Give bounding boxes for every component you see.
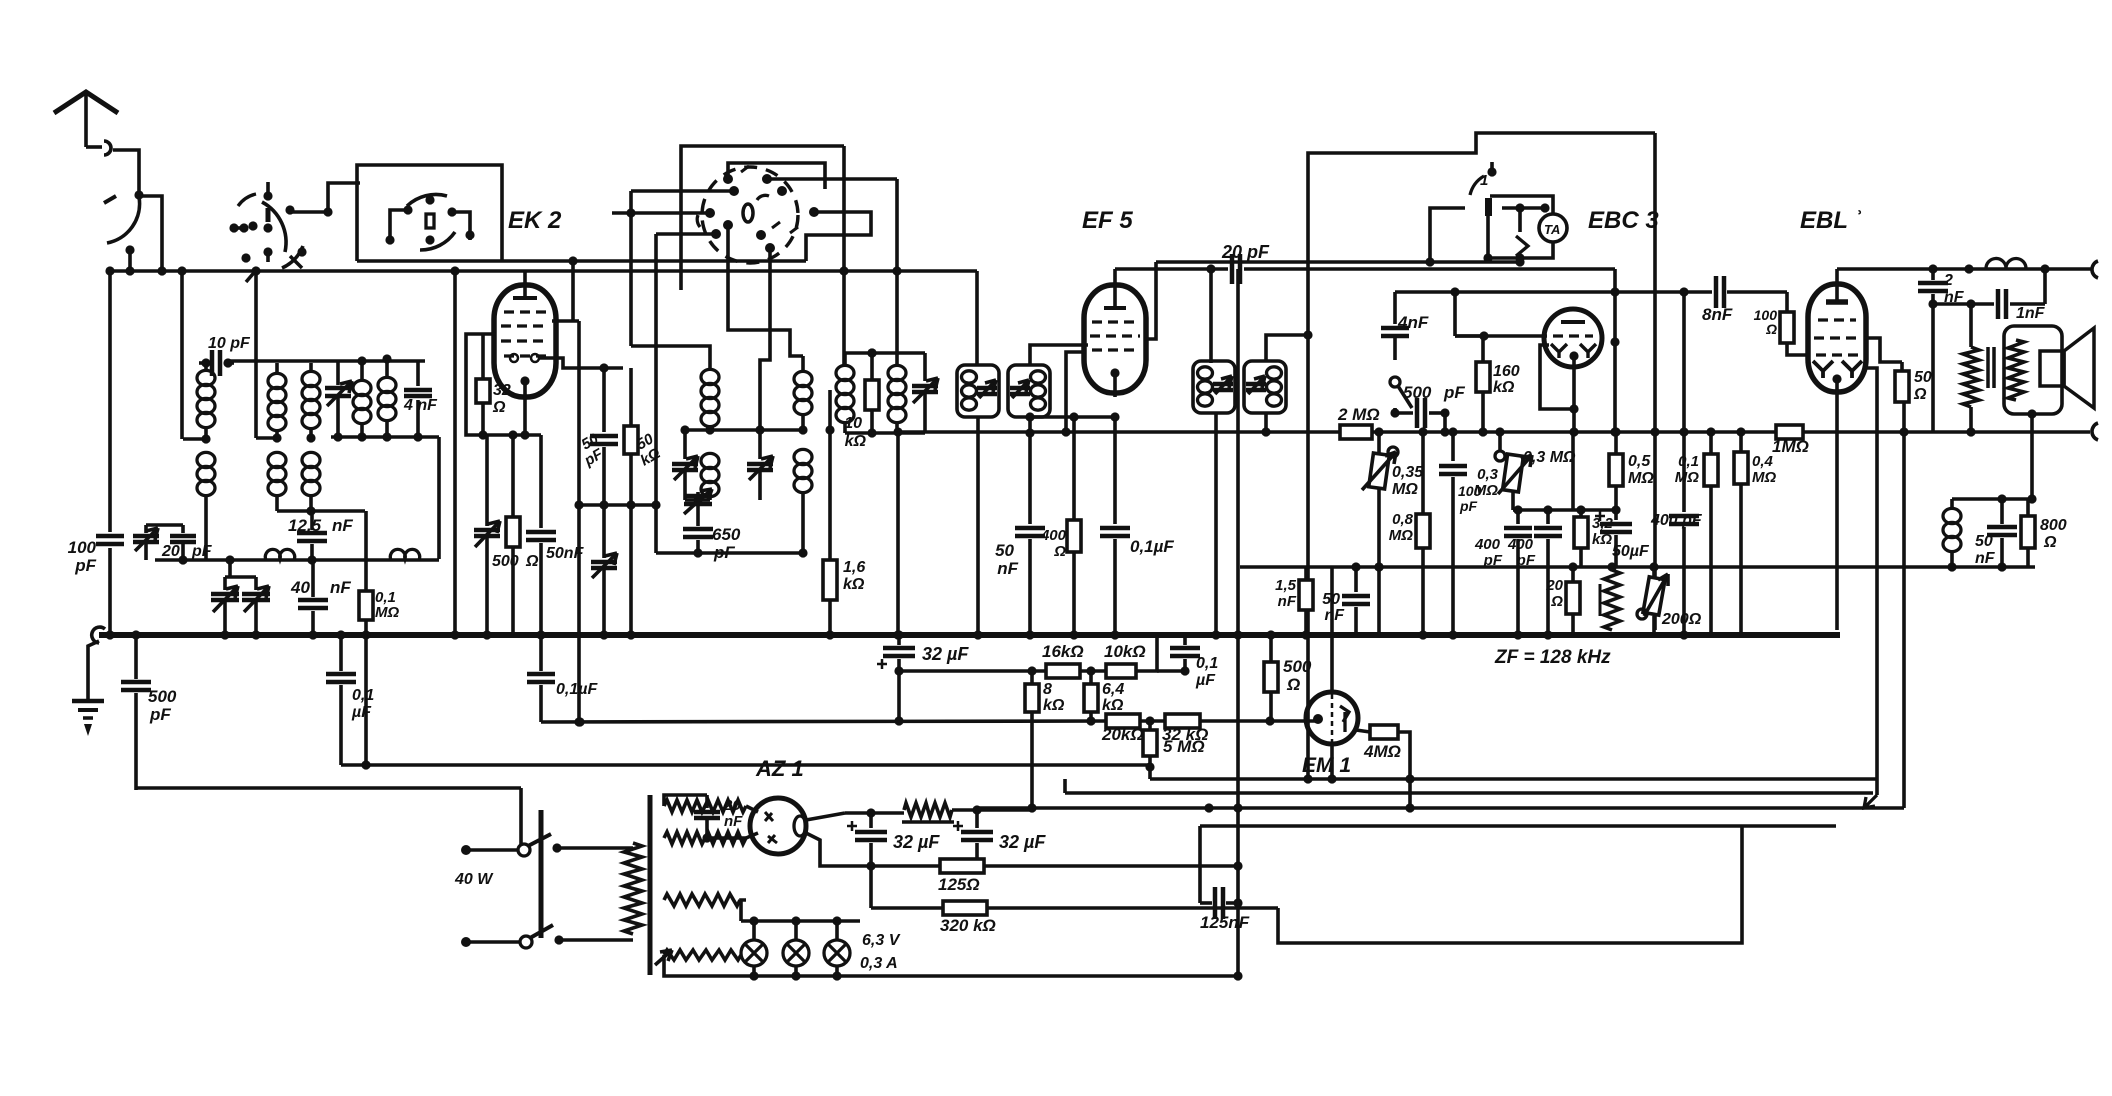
svg-text:20 pF: 20 pF — [1221, 242, 1270, 262]
svg-text:50: 50 — [1975, 533, 1993, 550]
svg-text:kΩ: kΩ — [843, 576, 865, 593]
svg-text:Ω: Ω — [1765, 321, 1777, 337]
svg-text:Ω: Ω — [1550, 593, 1563, 610]
svg-text:0,1: 0,1 — [1196, 655, 1218, 672]
resistor 8 kohm — [1030, 671, 1034, 684]
switch tone — [1390, 377, 1400, 387]
capacitor 10pF coupling — [199, 361, 206, 365]
speaker box — [2004, 326, 2062, 414]
wire block to plate rail — [1430, 260, 1520, 264]
capacitor 20pF — [181, 525, 185, 533]
wire AVC line right of 2M — [1372, 430, 1776, 434]
svg-text:50: 50 — [1322, 591, 1340, 608]
wire osc bottom rail — [685, 428, 803, 432]
transformer HV secondary a — [664, 800, 746, 812]
capacitor 50nF det — [1354, 567, 1358, 592]
svg-text:nF: nF — [997, 559, 1018, 578]
resistor 32 kohm — [1165, 714, 1200, 728]
resistor 160 kohm — [1481, 336, 1485, 362]
lamp dial 3 — [835, 921, 839, 941]
wire EBC3 diode plate loop — [1540, 345, 1574, 409]
svg-text:pF: pF — [1483, 552, 1503, 569]
node antenna switch — [134, 190, 143, 199]
svg-text:50nF: 50nF — [546, 545, 585, 562]
resistor hum zigzag — [1599, 584, 1602, 616]
resistor 4 Mohm — [1356, 730, 1370, 732]
capacitor padder variable — [693, 495, 702, 504]
wire EM1 grid row y=721 — [541, 721, 1106, 722]
svg-text:MΩ: MΩ — [1474, 482, 1498, 499]
svg-text:10 pF: 10 pF — [208, 335, 251, 352]
lamp dial 1 — [752, 921, 756, 941]
resistor 320 kohm — [943, 901, 987, 915]
tube EK2 socket outline box — [681, 146, 844, 290]
wire mains to transformer — [557, 846, 633, 850]
wire top signal rail y=271 — [110, 269, 977, 273]
tube EBC3 internals — [1561, 320, 1585, 324]
wire EK2 cathode — [523, 381, 527, 435]
svg-text:nF: nF — [724, 813, 743, 830]
capacitor 2nF — [1931, 269, 1935, 280]
capacitor 4nF — [416, 361, 420, 386]
wire antenna to top rail — [139, 196, 162, 271]
wire screen feed from box — [571, 261, 575, 321]
svg-text:32 µF: 32 µF — [893, 832, 940, 852]
svg-text:pF: pF — [1459, 498, 1478, 514]
wire EBL cathode to bus — [1835, 380, 1839, 630]
transformer HV secondary b — [664, 832, 746, 844]
resistor 0.5 Mohm — [1614, 432, 1618, 454]
capacitor 400pF c — [1682, 292, 1686, 512]
svg-text:0,5: 0,5 — [1628, 453, 1651, 470]
resistor 2 Mohm AVC — [1340, 425, 1372, 439]
svg-text:Ω: Ω — [2043, 534, 2057, 551]
resistor 400 ohm EF5 cathode — [1072, 417, 1076, 520]
transformer core — [648, 795, 653, 975]
svg-text:EBC 3: EBC 3 — [1588, 207, 1659, 234]
svg-text:1,6: 1,6 — [843, 559, 865, 576]
wire volume bottom rail y=510 — [1513, 508, 1616, 512]
svg-text:4 nF: 4 nF — [403, 397, 438, 414]
wire plate coupling line y=292 — [1395, 290, 1712, 294]
tube EM1 magic eye — [1330, 567, 1334, 693]
inductor filter choke — [904, 803, 952, 817]
wire socket pin10 to padder rail — [656, 232, 716, 236]
wire long vertical x=1238 — [1236, 269, 1240, 976]
svg-text:kΩ: kΩ — [1043, 697, 1065, 714]
svg-text:4MΩ: 4MΩ — [1363, 742, 1401, 761]
tube EK2 internal electrodes — [504, 310, 546, 313]
resistor 20 kohm — [1106, 714, 1140, 728]
capacitor 32uF electrolytic — [897, 635, 901, 645]
wire socket pin8 loop to osc coil J — [806, 212, 871, 261]
resistor 0.8 Mohm — [1421, 432, 1425, 514]
svg-text:nF: nF — [1278, 593, 1297, 610]
svg-text:Ω: Ω — [525, 553, 539, 570]
inductor RF coil L3a — [309, 363, 313, 371]
tube EBL top cap — [1826, 299, 1848, 305]
wire B+ rail y=808 after choke — [977, 806, 1904, 810]
wire field coil top rail — [1952, 497, 2032, 501]
potentiometer 0.3 Mohm volume — [1495, 451, 1505, 461]
capacitor 1.5nF — [1304, 567, 1308, 580]
svg-text:kΩ: kΩ — [845, 433, 867, 450]
wire coil bottom rail y=437 — [331, 435, 439, 439]
inductor field coil — [1950, 499, 1954, 508]
wire AZ1 heater return — [806, 833, 871, 866]
wire AZ1 output — [806, 813, 845, 820]
wire rail y=908 320k feed — [869, 866, 873, 908]
svg-text:1,5: 1,5 — [1275, 577, 1297, 594]
switch wafer 1 contacts — [262, 202, 286, 252]
capacitor 32uF filter 1 — [869, 813, 873, 828]
wire EF5 cathode rail — [1030, 415, 1115, 419]
resistor 500 ohm cathode — [511, 435, 515, 517]
resistor 0.1 Mohm — [364, 511, 368, 590]
svg-text:TA: TA — [1544, 222, 1560, 237]
potentiometer 200 ohm — [1643, 577, 1665, 615]
inductor antenna coil L1b — [197, 452, 215, 467]
svg-text:32: 32 — [493, 382, 511, 399]
node bus hook left end — [92, 627, 105, 643]
switch TA contacts — [1515, 203, 1524, 212]
svg-text:0,1: 0,1 — [352, 687, 374, 704]
wire padder junction y=511 — [277, 509, 365, 513]
svg-text:125Ω: 125Ω — [938, 875, 980, 894]
svg-text:EF 5: EF 5 — [1082, 207, 1133, 234]
wire band switch box — [357, 165, 502, 261]
wire EBC3 cathode rail link — [1571, 432, 1575, 510]
svg-text:650: 650 — [712, 525, 741, 544]
resistor 20 ohm — [1571, 567, 1575, 582]
capacitor trimmer — [336, 361, 340, 385]
capacitor 100pF det — [1451, 432, 1455, 461]
inductor RF choke output — [1986, 258, 2026, 269]
svg-text:Ω: Ω — [492, 399, 506, 416]
svg-text:160: 160 — [1493, 363, 1520, 380]
wire HV to AZ1 — [746, 806, 758, 812]
inductor oscillator coil Jb — [794, 449, 812, 464]
switch wafer 2 contacts — [407, 194, 447, 206]
svg-text:32 µF: 32 µF — [999, 832, 1046, 852]
inductor oscillator coil Gb — [701, 453, 719, 468]
wire EBC3 cathode down — [1572, 356, 1576, 432]
svg-text:Ω: Ω — [1053, 543, 1066, 560]
svg-text:kΩ: kΩ — [1102, 697, 1124, 714]
wire can3 feed — [1209, 269, 1213, 363]
svg-text:400 pF: 400 pF — [1650, 512, 1703, 529]
capacitor 100pF antenna series — [108, 271, 112, 532]
svg-text:50: 50 — [1914, 369, 1932, 386]
svg-text:20: 20 — [723, 797, 741, 814]
wire EF5 screen — [1066, 352, 1086, 432]
wire EM1 cathode — [1330, 744, 1334, 779]
resistor 16 kohm — [1046, 664, 1080, 678]
svg-text:nF: nF — [1324, 607, 1345, 624]
wire socket box right edge to IF1 — [842, 146, 846, 365]
svg-text:6,3 V: 6,3 V — [862, 932, 901, 949]
wire EK2 plate to rail — [552, 319, 579, 323]
capacitor 500pF — [1395, 411, 1413, 415]
svg-text:50: 50 — [995, 541, 1014, 560]
inductor osc coupling coil — [360, 361, 364, 380]
svg-text:6,4: 6,4 — [1102, 681, 1124, 698]
svg-text:µF: µF — [351, 704, 372, 721]
resistor 50 ohm — [1864, 338, 1902, 362]
svg-text:200Ω: 200Ω — [1661, 611, 1702, 628]
wire feed line y=788 — [136, 786, 521, 790]
svg-text:8: 8 — [1043, 681, 1052, 698]
svg-text:pF: pF — [1516, 552, 1536, 569]
svg-text:50µF: 50µF — [1612, 543, 1650, 560]
resistor 32 ohm — [466, 334, 496, 435]
transformer IF can 4 — [1244, 361, 1286, 413]
resistor 0.4 Mohm — [1739, 432, 1743, 452]
svg-text:Ω: Ω — [1913, 386, 1927, 403]
inductor IF1 primary coil — [843, 353, 847, 365]
svg-text:400: 400 — [1507, 536, 1534, 553]
tube AZ1 rectifier — [750, 798, 806, 854]
svg-text:8nF: 8nF — [1702, 305, 1733, 324]
svg-text:20: 20 — [161, 543, 180, 560]
capacitor tuning gang 1 — [223, 577, 227, 590]
svg-text:4nF: 4nF — [1397, 313, 1429, 332]
svg-text:500: 500 — [148, 687, 177, 706]
wire 50k bottom rail — [579, 503, 656, 507]
svg-text:0,4: 0,4 — [1752, 453, 1774, 470]
capacitor 0.1uF EF5 cathode — [1113, 417, 1117, 524]
svg-text:0,3 A: 0,3 A — [860, 955, 898, 972]
capacitor 50nF cathode — [539, 435, 543, 528]
capacitor 400pF b — [1546, 510, 1550, 524]
wire plate top line — [1837, 267, 2092, 271]
wire return rail y=779 — [1148, 767, 1152, 779]
transformer output core — [1986, 347, 1990, 388]
wire choke out to B+ rail — [1032, 808, 1036, 810]
resistor 0.1 Mohm right — [1709, 432, 1713, 454]
wire EBL side down — [1864, 368, 1877, 795]
lamp dial 2 — [794, 921, 798, 941]
wire 20pF to EBC3 plate — [1613, 269, 1617, 432]
wire AVC line y=432 — [898, 430, 1340, 434]
pickup TA — [1539, 214, 1567, 242]
svg-text:EBL ʾ: EBL ʾ — [1800, 207, 1862, 234]
node cathode rail — [478, 430, 487, 439]
svg-text:20: 20 — [1545, 577, 1563, 594]
resistor 500 ohm EM1 — [1269, 635, 1273, 662]
svg-text:0,1µF: 0,1µF — [556, 681, 598, 698]
svg-text:2: 2 — [1943, 272, 1953, 289]
svg-text:MΩ: MΩ — [1392, 481, 1418, 498]
inductor oscillator coil Ga — [708, 356, 712, 369]
inductor RF coil L2a — [275, 363, 279, 373]
svg-text:pF: pF — [191, 543, 213, 560]
svg-text:125nF: 125nF — [1200, 913, 1250, 932]
speaker — [2040, 351, 2064, 386]
wire top frame right — [1308, 133, 1655, 779]
tube EBL envelope — [1808, 284, 1866, 392]
tube EBL internals — [1818, 318, 1856, 321]
switch TA pickup block — [1430, 208, 1465, 258]
wire return rail y=793 — [1065, 791, 1873, 795]
svg-text:10kΩ: 10kΩ — [1104, 642, 1146, 661]
resistor 100 ohm grid stopper — [1785, 292, 1789, 312]
svg-text:0,35: 0,35 — [1392, 464, 1424, 481]
svg-text:0,1µF: 0,1µF — [1130, 537, 1174, 556]
capacitor 20pF top coupling — [1230, 254, 1235, 284]
svg-text:500: 500 — [492, 553, 519, 570]
svg-text:20kΩ: 20kΩ — [1101, 725, 1144, 744]
capacitor 50nF EF5 — [1028, 433, 1032, 524]
ground — [88, 641, 99, 700]
transformer IF can 2 — [1008, 365, 1050, 417]
wire grid line x=182 — [180, 271, 184, 439]
svg-text:MΩ: MΩ — [1752, 469, 1776, 486]
svg-text:nF: nF — [332, 516, 353, 535]
wire staircase to right — [1278, 826, 1742, 943]
svg-text:0,8: 0,8 — [1392, 511, 1414, 528]
wire AVC bottom rail y=765 — [341, 763, 1150, 767]
svg-text:40: 40 — [290, 578, 310, 597]
wire x=366 below bus to AVC — [364, 635, 368, 765]
svg-text:32 µF: 32 µF — [922, 644, 969, 664]
inductor RF coil L3b — [302, 452, 320, 467]
capacitor trimmer antenna — [144, 525, 148, 533]
svg-text:500: 500 — [1403, 383, 1432, 402]
svg-text:320 kΩ: 320 kΩ — [940, 916, 996, 935]
wire padder bottom rail — [656, 551, 803, 555]
wire heater top rail — [741, 919, 860, 923]
svg-text:µF: µF — [1195, 672, 1216, 689]
wire socket pin13 down — [728, 225, 803, 356]
resistor 5 Mohm — [1148, 721, 1152, 730]
capacitor 8nF coupling — [1714, 276, 1719, 308]
svg-text:pF: pF — [1443, 383, 1465, 402]
tube EK2 socket circle — [702, 167, 798, 263]
svg-text:1nF: 1nF — [2016, 305, 2046, 322]
capacitor 400pF a — [1516, 510, 1520, 524]
wire coil top rail y=361 — [228, 359, 425, 363]
svg-text:MΩ: MΩ — [375, 604, 399, 621]
capacitor 0.1uF osc AVC — [339, 635, 343, 671]
svg-text:MΩ: MΩ — [1675, 469, 1699, 486]
inductor oscillator coil Ja — [801, 356, 805, 371]
wire switch to box — [290, 210, 328, 214]
wire socket pin2 to IF1 secondary — [767, 177, 897, 181]
resistor 3.2 kohm — [1574, 517, 1588, 548]
capacitor 50uF electrolytic — [1614, 486, 1618, 520]
svg-text:0,3 MΩ: 0,3 MΩ — [1523, 449, 1576, 466]
wire rail y=866 — [871, 864, 1238, 868]
node osc junction — [705, 425, 714, 434]
svg-text:AZ 1: AZ 1 — [755, 756, 804, 781]
capacitor 500pF to ground below bus — [134, 635, 138, 679]
svg-text:MΩ: MΩ — [1628, 470, 1654, 487]
svg-text:5 MΩ: 5 MΩ — [1163, 737, 1205, 756]
transformer IF can 1 — [975, 271, 979, 365]
capacitor 32uF filter 2 — [975, 810, 979, 828]
svg-text:pF: pF — [74, 556, 96, 575]
svg-text:EK 2: EK 2 — [508, 207, 562, 234]
svg-text:kΩ: kΩ — [1493, 379, 1515, 396]
capacitor 1.6 kohm -> resistor 1.6k — [828, 390, 832, 430]
transformer heater winding 6.3V — [664, 950, 741, 960]
svg-text:nF: nF — [1975, 550, 1996, 567]
capacitor 0.1uF AVC — [1183, 635, 1187, 645]
inductor RF coil L2b — [268, 452, 286, 467]
wire long vertical x=1655 — [1653, 133, 1657, 630]
svg-text:10: 10 — [844, 415, 862, 432]
svg-text:MΩ: MΩ — [1389, 527, 1413, 544]
wire det rail y=567 — [1240, 565, 2035, 569]
svg-text:400: 400 — [1474, 536, 1501, 553]
capacitor tuning gang 2 — [254, 577, 258, 590]
transformer output secondary — [2008, 340, 2024, 400]
tube EF5 envelope — [1084, 285, 1146, 393]
antenna — [54, 92, 118, 113]
wire heater rail y=976 — [741, 974, 1238, 978]
capacitor 20nF — [705, 795, 709, 808]
svg-text:0,3: 0,3 — [1477, 466, 1499, 483]
wire speaker to field — [2027, 409, 2036, 418]
wire EBC3 grid line — [1455, 334, 1547, 338]
wire socket inner loop — [728, 163, 825, 189]
resistor 1 Mohm — [1776, 425, 1803, 439]
switch antenna selector blade — [107, 197, 140, 243]
wire plate supply vertical x=898 — [896, 433, 900, 635]
wire EBL screen down — [1902, 400, 1906, 808]
wire socket pin6 left entry — [612, 211, 710, 215]
capacitor trimmer osc — [683, 430, 687, 459]
resistor 800 ohm field — [2026, 499, 2030, 516]
svg-text:16kΩ: 16kΩ — [1042, 642, 1084, 661]
tube EBC3 envelope — [1544, 309, 1602, 367]
resistor 6.4 kohm — [1089, 671, 1093, 684]
svg-text:Ω: Ω — [1286, 675, 1300, 694]
capacitor trimmer 2 osc — [758, 430, 762, 459]
tube EF5 top cap — [1104, 306, 1126, 310]
svg-text:0,1: 0,1 — [1678, 453, 1699, 470]
tube EK2 envelope — [494, 285, 556, 397]
wire plate line y=262 — [1156, 260, 1430, 264]
wire screen feed row y=671 — [899, 669, 1046, 673]
node coil junction — [201, 434, 210, 443]
capacitor trimmer screen — [602, 505, 606, 558]
wire socket pin12 to trimmer — [760, 248, 770, 430]
capacitor 0.1uF decoupling below bus — [539, 635, 543, 671]
tube EF5 internals — [1092, 320, 1138, 323]
svg-text:1: 1 — [1480, 172, 1488, 189]
svg-text:40 W: 40 W — [454, 871, 494, 888]
inductor antenna coil L1a — [204, 363, 208, 370]
wire long vertical x=455 — [453, 272, 457, 635]
capacitor 650pF padder — [683, 527, 713, 532]
wire socket pin3 to osc coil — [631, 189, 734, 193]
wire 125nF branch — [1198, 826, 1202, 903]
inductor osc coil — [385, 359, 389, 377]
connector mains left — [463, 848, 518, 852]
capacitor 40nF — [311, 560, 315, 597]
svg-text:400: 400 — [1040, 527, 1067, 544]
svg-text:nF: nF — [330, 578, 351, 597]
potentiometer 0.35 Mohm — [1377, 432, 1381, 454]
svg-text:pF: pF — [149, 705, 171, 724]
wire EF5 plate to IF2 — [1144, 262, 1156, 339]
tube EK2 top cap and grid wire — [513, 296, 537, 300]
capacitor 50nF field — [2000, 499, 2004, 524]
capacitor 1nF tone — [1933, 302, 1994, 306]
wire AVC return line y=560 with chokes — [155, 558, 439, 562]
